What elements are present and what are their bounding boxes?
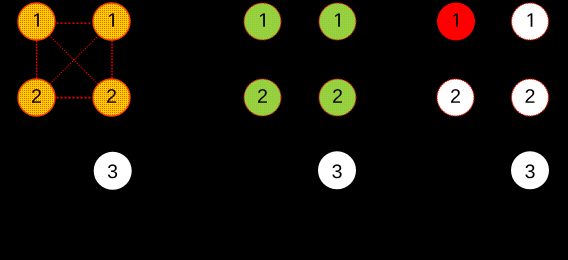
node 1 (left graph, top-left, orange): [18, 3, 55, 40]
wire: right edge 1-2 (left graph): [111, 23, 113, 98]
node 3 (middle graph, white): [318, 151, 356, 189]
wire: left edge 1-2 (left graph): [36, 23, 38, 98]
node 1 (middle graph, top-left, green): [244, 3, 281, 40]
node 2 (left graph, bottom-right, orange): [93, 79, 130, 116]
node 1 (middle graph, top-right, green): [319, 3, 356, 40]
node 2 (left graph, bottom-left, orange): [18, 79, 55, 116]
wire: diagonal TR-BL (left graph): [37, 23, 112, 98]
wire: diagonal TL-BR (left graph): [37, 23, 112, 98]
node 1 (right graph, top-right, white with red rim): [512, 3, 549, 40]
wire: top edge 1-1 (left graph): [37, 22, 112, 24]
node 1 (right graph, top-left, red): [437, 3, 475, 41]
node 2 (middle graph, bottom-left, green): [244, 79, 281, 116]
node 2 (middle graph, bottom-right, green): [319, 79, 356, 116]
node 3 (right graph, white): [511, 151, 549, 189]
node 1 (left graph, top-right, orange): [93, 3, 130, 40]
wire: bottom edge 2-2 (left graph): [37, 97, 112, 99]
node 2 (right graph, bottom-left, white with red rim): [437, 79, 474, 116]
node 2 (right graph, bottom-right, white with red rim): [512, 79, 549, 116]
node 3 (left graph, white): [94, 152, 132, 190]
